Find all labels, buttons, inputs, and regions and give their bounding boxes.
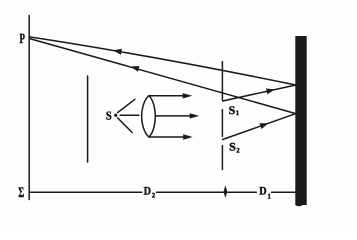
- dimension line D1: [272, 191, 296, 193]
- baffle line: [87, 76, 89, 162]
- wire ray M2 to P: [30, 39, 296, 114]
- collimated ray bottom: [149, 136, 184, 138]
- dimension line D2 part a: [30, 191, 142, 193]
- arrowhead on ray S1-mirror: [266, 88, 275, 94]
- dimension line D2 part b: [157, 191, 257, 193]
- source ray down: [118, 118, 133, 133]
- mirror bar: [295, 36, 306, 205]
- wire ray M1 to P: [30, 37, 296, 85]
- svg-text:2: 2: [236, 147, 240, 154]
- arrowhead collimated middle: [190, 113, 200, 118]
- svg-text:D: D: [144, 186, 151, 198]
- wire ray S2 to mirror: [223, 114, 296, 140]
- svg-text:1: 1: [236, 110, 240, 117]
- screen line Sigma: [28, 16, 30, 200]
- slit plate middle segment: [221, 110, 223, 137]
- svg-text:S: S: [229, 142, 236, 154]
- arrowhead collimated top: [183, 93, 193, 98]
- arrowhead on ray M2-P: [131, 66, 140, 72]
- slit plate top segment: [221, 62, 223, 100]
- arrowhead collimated bottom: [183, 134, 193, 139]
- lens L: [142, 96, 156, 137]
- svg-text:1: 1: [268, 193, 272, 201]
- source ray mid: [120, 114, 139, 116]
- svg-text:Σ: Σ: [18, 185, 24, 201]
- svg-text:S: S: [106, 109, 112, 123]
- wire ray S1 to mirror: [223, 85, 296, 101]
- mirror bar foot smudge: [296, 203, 303, 207]
- svg-text:S: S: [229, 105, 236, 117]
- source ray up: [118, 99, 135, 112]
- collimated ray top: [149, 95, 183, 97]
- collimated ray middle: [155, 115, 190, 117]
- dimension tick: [224, 185, 228, 198]
- svg-text:P: P: [20, 32, 26, 47]
- svg-text:2: 2: [152, 191, 156, 199]
- svg-text:D: D: [259, 186, 266, 198]
- arrowhead on ray S2-mirror: [260, 123, 269, 129]
- source point S: [114, 114, 117, 117]
- arrowhead on ray M1-P: [113, 49, 122, 55]
- slit plate bottom segment: [221, 146, 223, 170]
